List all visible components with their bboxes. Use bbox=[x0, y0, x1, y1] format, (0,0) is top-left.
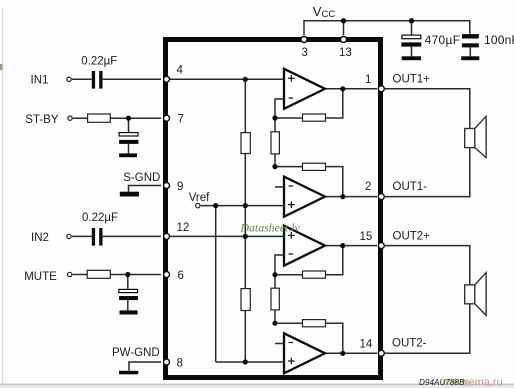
svg-text:9: 9 bbox=[177, 181, 183, 193]
svg-text:V: V bbox=[313, 4, 322, 19]
svg-text:0.22µF: 0.22µF bbox=[81, 55, 117, 67]
svg-text:OUT2-: OUT2- bbox=[392, 338, 427, 350]
svg-text:ST-BY: ST-BY bbox=[25, 114, 59, 126]
svg-text:7: 7 bbox=[178, 114, 184, 126]
svg-text:OUT1+: OUT1+ bbox=[393, 74, 431, 86]
svg-text:4: 4 bbox=[177, 65, 184, 77]
svg-text:12: 12 bbox=[177, 222, 190, 234]
svg-text:1: 1 bbox=[365, 74, 371, 86]
svg-text:IN1: IN1 bbox=[31, 75, 49, 87]
svg-text:xema.ru: xema.ru bbox=[463, 377, 503, 388]
svg-text:13: 13 bbox=[339, 47, 352, 59]
svg-text:2: 2 bbox=[365, 181, 371, 193]
svg-text:8: 8 bbox=[177, 358, 183, 370]
svg-text:Vref: Vref bbox=[189, 192, 210, 204]
svg-text:S-GND: S-GND bbox=[123, 172, 160, 184]
svg-text:14: 14 bbox=[360, 339, 373, 351]
svg-text:OUT2+: OUT2+ bbox=[393, 230, 431, 242]
svg-text:0.22µF: 0.22µF bbox=[82, 212, 118, 224]
svg-text:D94AU788B: D94AU788B bbox=[419, 378, 465, 387]
svg-text:Datasheet.lv: Datasheet.lv bbox=[240, 221, 301, 235]
svg-text:100nF: 100nF bbox=[484, 33, 514, 47]
svg-text:MUTE: MUTE bbox=[24, 271, 57, 283]
svg-text:6: 6 bbox=[178, 270, 184, 282]
svg-text:15: 15 bbox=[360, 231, 373, 243]
svg-text:3: 3 bbox=[302, 47, 308, 59]
svg-text:OUT1-: OUT1- bbox=[393, 181, 428, 193]
svg-text:CC: CC bbox=[322, 9, 336, 20]
svg-text:IN2: IN2 bbox=[31, 232, 49, 244]
svg-text:PW-GND: PW-GND bbox=[112, 347, 160, 359]
svg-text:470µF: 470µF bbox=[425, 33, 461, 47]
